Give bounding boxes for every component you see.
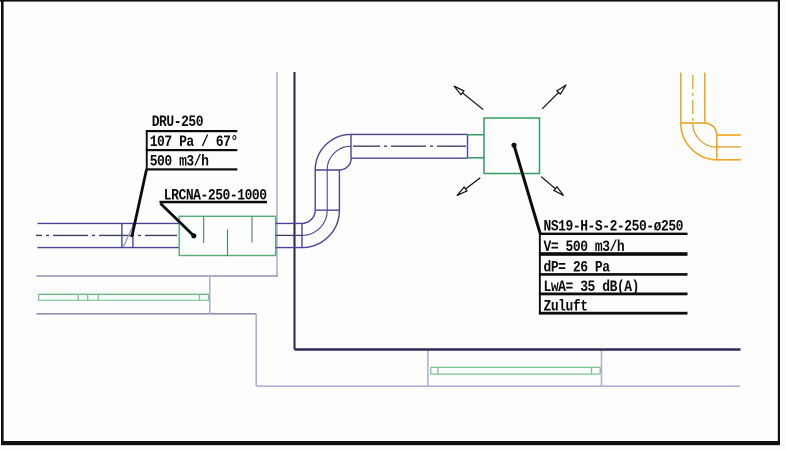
svg-text:107 Pa / 67°: 107 Pa / 67°	[150, 134, 238, 151]
svg-text:500 m3/h: 500 m3/h	[150, 153, 209, 170]
svg-text:DRU-250: DRU-250	[152, 114, 203, 131]
